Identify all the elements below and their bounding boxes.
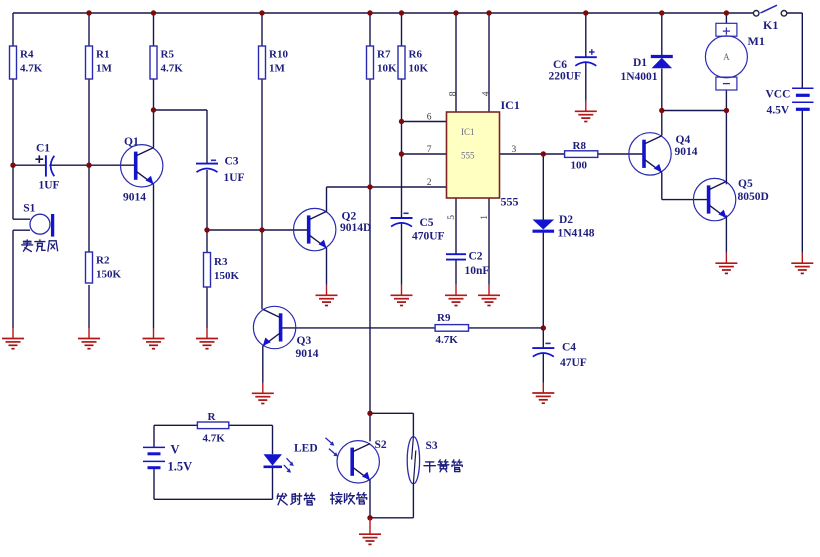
node top rail / R7 xyxy=(367,10,372,15)
pin 1 label xyxy=(480,215,490,220)
svg-text:A: A xyxy=(723,52,730,62)
wire Q2 collector riser xyxy=(326,187,328,212)
wire pin2 node down to S2 node xyxy=(369,187,371,413)
ground at R4/S1 column xyxy=(2,328,24,349)
wire emitter loop top right xyxy=(229,425,273,454)
wire node to Q4 collector xyxy=(661,111,663,136)
svg-text:10nF: 10nF xyxy=(465,265,490,277)
wire Q4 emitter drop xyxy=(661,172,663,199)
phototransistor S2 xyxy=(325,438,386,483)
svg-text:4.7K: 4.7K xyxy=(20,63,43,75)
svg-text:LED: LED xyxy=(294,442,318,454)
svg-text:R1: R1 xyxy=(96,49,109,61)
svg-text:D2: D2 xyxy=(559,214,573,226)
wire R4 column upper xyxy=(12,13,14,46)
node top rail / D1 xyxy=(659,10,664,15)
svg-text:1N4001: 1N4001 xyxy=(621,71,658,83)
wire D1 drop xyxy=(661,13,663,56)
diode D2 1N4148 xyxy=(533,214,595,240)
ground at Q5 emitter xyxy=(715,253,737,274)
svg-text:9014: 9014 xyxy=(296,348,319,360)
label fasheguan (emitter tube) for LED xyxy=(277,493,314,505)
node D1 / Q4 collector xyxy=(659,108,664,113)
wire Q2 base horizontal xyxy=(207,229,308,231)
svg-text:M1: M1 xyxy=(748,34,765,48)
transistor Q3 9014 xyxy=(253,306,318,360)
ground at C5 xyxy=(391,285,413,306)
wire 555 pin1 to ground xyxy=(488,198,490,285)
node top rail / M1 xyxy=(724,10,729,15)
label maikefeng (microphone) for S1 xyxy=(22,240,58,252)
switch K1 xyxy=(753,5,786,32)
resistor R1 1M xyxy=(86,46,113,79)
wire R10 down to Q2 base node xyxy=(261,79,263,230)
ground at C6 xyxy=(575,101,597,122)
svg-text:Q4: Q4 xyxy=(676,134,691,146)
wire R6 column upper xyxy=(401,13,403,46)
svg-text:R: R xyxy=(208,411,217,423)
motor M1 xyxy=(705,23,764,90)
svg-text:9014: 9014 xyxy=(123,192,146,204)
wire R7 column upper xyxy=(369,13,371,46)
resistor R10 1M xyxy=(259,46,289,79)
svg-text:C6: C6 xyxy=(553,59,567,71)
node top rail / R6 xyxy=(399,10,404,15)
label IC1 designator xyxy=(501,98,520,112)
wire S2 collector xyxy=(369,413,371,441)
wire 555 pin6 xyxy=(402,121,447,123)
svg-text:R2: R2 xyxy=(96,255,110,267)
svg-text:470UF: 470UF xyxy=(412,231,445,243)
node R6 / pin6 xyxy=(399,119,404,124)
wire C4 to ground xyxy=(542,354,544,383)
wire Q1 emitter to ground xyxy=(153,184,155,328)
svg-text:4: 4 xyxy=(481,91,491,96)
svg-text:3: 3 xyxy=(512,145,517,155)
wire node to C4 xyxy=(542,328,544,348)
op-amp U1 555 timer IC1 body xyxy=(447,112,500,198)
svg-text:R8: R8 xyxy=(573,140,587,152)
wire top rail right of K1 and VCC battery drop xyxy=(786,13,802,88)
svg-text:555: 555 xyxy=(461,151,475,161)
resistor R3 150K xyxy=(204,253,240,288)
node R10 / Q2 base xyxy=(259,227,264,232)
wire R5 to collector node xyxy=(153,79,155,148)
node top rail / pin8 xyxy=(453,10,458,15)
svg-text:555: 555 xyxy=(501,195,519,209)
wire R1 column upper xyxy=(88,13,90,46)
resistor R 4.7K emitter loop xyxy=(197,411,228,445)
wire R9 to C4 node xyxy=(469,327,544,329)
wire 555 pin5 to C2 xyxy=(455,198,457,254)
svg-text:Q5: Q5 xyxy=(738,178,753,190)
label ganhuangguan (reed switch) for S3 xyxy=(424,460,462,472)
label 555 value xyxy=(501,195,519,209)
wire Q5 emitter to ground xyxy=(725,215,727,252)
label jieshouguan (receiver) for S2 xyxy=(331,493,367,504)
capacitor C4 47UF xyxy=(532,342,587,369)
svg-text:1M: 1M xyxy=(96,63,113,75)
resistor R6 10K xyxy=(398,46,429,79)
svg-text:1UF: 1UF xyxy=(224,172,245,184)
wire C2 to ground xyxy=(455,260,457,285)
svg-text:10K: 10K xyxy=(409,63,429,75)
wire S3 branch bottom xyxy=(370,484,413,518)
svg-text:4.7K: 4.7K xyxy=(161,63,184,75)
node C3 / R3 xyxy=(204,227,209,232)
svg-text:IC1: IC1 xyxy=(501,98,520,112)
svg-text:K1: K1 xyxy=(763,18,778,32)
svg-text:6: 6 xyxy=(427,112,432,122)
svg-text:4.7K: 4.7K xyxy=(436,334,459,346)
wire VCC battery to ground xyxy=(801,109,803,252)
wire R7 to pin2 node xyxy=(369,79,371,187)
svg-text:R7: R7 xyxy=(377,49,391,61)
wire Q3 emitter to ground xyxy=(262,346,264,383)
wire 555 pin4 drop xyxy=(488,13,490,112)
node pin3 / D2 xyxy=(541,151,546,156)
ground at C2 / pin5 xyxy=(445,285,467,306)
pin 2 label xyxy=(427,178,432,188)
node top rail / R5 xyxy=(151,10,156,15)
wire R6 to pins 6/7 and C5 xyxy=(401,79,403,218)
wire 555 pin2 horizontal xyxy=(327,186,447,188)
resistor R9 4.7K xyxy=(435,312,468,346)
svg-text:150K: 150K xyxy=(214,270,240,282)
svg-text:S2: S2 xyxy=(375,439,387,451)
wire C3 top drop xyxy=(206,110,208,164)
wire C3 to R3 node xyxy=(206,170,208,253)
wire top supply rail xyxy=(13,12,754,14)
resistor R7 10K xyxy=(367,46,398,79)
svg-text:C3: C3 xyxy=(225,156,239,168)
svg-text:C2: C2 xyxy=(469,250,483,262)
pin 6 label xyxy=(427,112,432,122)
svg-text:8: 8 xyxy=(448,91,458,96)
transistor Q5 8050D xyxy=(693,178,768,221)
svg-text:R9: R9 xyxy=(437,312,451,324)
svg-text:1.5V: 1.5V xyxy=(168,460,193,474)
ground at Q3 emitter xyxy=(252,383,274,404)
svg-text:S3: S3 xyxy=(426,440,438,452)
svg-text:1: 1 xyxy=(480,215,490,220)
capacitor C1 1UF xyxy=(35,143,59,192)
svg-text:2: 2 xyxy=(427,178,432,188)
ground at R3 column xyxy=(196,328,218,349)
svg-text:C5: C5 xyxy=(420,217,434,229)
capacitor C3 1UF xyxy=(196,156,245,185)
wire node to Q5 collector xyxy=(725,111,727,185)
node R5 / Q1 collector / C3 xyxy=(151,107,156,112)
transistor Q1 9014 xyxy=(121,136,163,203)
svg-text:R6: R6 xyxy=(409,49,423,61)
wire node to Q3 collector xyxy=(261,230,263,309)
wire Q2 emitter to ground xyxy=(326,248,328,285)
wire S3 branch top xyxy=(370,413,413,436)
wire C1 node horizontal xyxy=(13,164,46,166)
wire D2 branch upper xyxy=(542,154,544,220)
wire R5 column upper xyxy=(153,13,155,46)
wire R3 to ground xyxy=(206,287,208,328)
reed switch S3 xyxy=(407,437,438,484)
node C1 left xyxy=(10,163,15,168)
wire S1 lower stub to ground xyxy=(12,230,14,328)
node D2 / R9 / C4 xyxy=(541,325,546,330)
svg-text:Q3: Q3 xyxy=(297,335,312,347)
svg-text:D1: D1 xyxy=(633,57,647,69)
ground at pin1 xyxy=(478,285,500,306)
pin 8 label xyxy=(448,91,458,96)
wire emitter loop bottom xyxy=(154,468,273,500)
wire node R5/C3 horizontal xyxy=(154,109,208,111)
ground at VCC battery xyxy=(791,253,813,274)
svg-text:C4: C4 xyxy=(562,342,576,354)
svg-text:47UF: 47UF xyxy=(560,357,587,369)
resistor R5 4.7K xyxy=(150,46,183,79)
transistor Q2 9014D xyxy=(294,208,372,250)
wire Q4 emitter to Q5 base xyxy=(662,199,709,201)
resistor R2 150K xyxy=(86,252,122,283)
svg-text:1N4148: 1N4148 xyxy=(558,228,595,240)
svg-text:100: 100 xyxy=(571,160,588,172)
svg-text:1UF: 1UF xyxy=(39,180,60,192)
svg-text:1M: 1M xyxy=(269,63,286,75)
svg-text:VCC: VCC xyxy=(766,89,791,101)
pin 5 label xyxy=(447,215,457,220)
svg-text:V: V xyxy=(171,443,180,457)
wire D1 to node xyxy=(661,69,663,111)
node top rail / R10 xyxy=(259,10,264,15)
capacitor C5 470UF xyxy=(391,213,445,242)
wire emitter loop left xyxy=(153,425,155,499)
ground at R2 column xyxy=(78,328,100,349)
wire 555 pin3 to R8 xyxy=(500,153,565,155)
svg-text:9014D: 9014D xyxy=(340,222,371,234)
node R7 / pin2 xyxy=(367,184,372,189)
svg-text:S1: S1 xyxy=(23,203,35,215)
capacitor C6 220UF xyxy=(549,49,597,82)
svg-text:Q1: Q1 xyxy=(124,136,139,148)
svg-text:4.7K: 4.7K xyxy=(203,433,226,445)
pin 4 label xyxy=(481,91,491,96)
microphone S1 xyxy=(13,203,53,237)
wire C1 to Q1 base xyxy=(49,164,136,166)
wire M1 top xyxy=(725,13,727,23)
ground at S2/S3 xyxy=(359,518,381,545)
wire 555 pin7 xyxy=(402,153,447,155)
battery VCC 4.5V xyxy=(766,88,814,116)
wire C6 to ground xyxy=(585,63,587,101)
LED emitter diode xyxy=(264,442,318,472)
wire R1 to C1 node to R2 xyxy=(88,79,90,252)
pin 3 label xyxy=(512,145,517,155)
ground at C4 xyxy=(532,383,554,404)
resistor R4 4.7K xyxy=(10,46,43,79)
ground at Q2 emitter xyxy=(316,285,338,306)
node M1 / Q5 collector xyxy=(724,108,729,113)
wire C5 to ground xyxy=(401,224,403,285)
wire C6 drop xyxy=(585,13,587,57)
node C1 right / R1 R2 xyxy=(86,163,91,168)
svg-text:5: 5 xyxy=(447,215,457,220)
wire Q3 base to R9 xyxy=(279,327,435,329)
svg-text:8050D: 8050D xyxy=(738,191,769,203)
resistor R8 100 xyxy=(565,140,598,172)
wire R8 to Q4 base xyxy=(598,153,644,155)
svg-text:R3: R3 xyxy=(214,256,228,268)
svg-text:9014: 9014 xyxy=(675,146,698,158)
capacitor C2 10nF xyxy=(446,250,489,277)
svg-text:150K: 150K xyxy=(96,269,122,281)
wire emitter loop top left xyxy=(154,424,197,426)
svg-text:R10: R10 xyxy=(269,49,288,61)
svg-text:4.5V: 4.5V xyxy=(767,105,790,117)
node S2 / S3 bottom xyxy=(367,515,372,520)
pin 7 label xyxy=(427,145,432,155)
wire R2 to ground xyxy=(88,285,90,328)
wire node D1/M1 horizontal xyxy=(662,110,727,112)
node pin7 xyxy=(399,151,404,156)
ground at Q1 emitter xyxy=(143,328,165,349)
wire D2 to R9/C4 node xyxy=(542,233,544,328)
node top rail / C6 xyxy=(583,10,588,15)
wire R4 to C1 node and microphone xyxy=(12,79,14,219)
transistor Q4 9014 xyxy=(629,133,698,175)
wire S2 emitter to ground node xyxy=(369,480,371,518)
svg-text:R5: R5 xyxy=(161,49,175,61)
svg-text:Q2: Q2 xyxy=(342,210,357,222)
diode D1 1N4001 xyxy=(621,57,673,84)
svg-text:IC1: IC1 xyxy=(461,127,475,137)
node S2 / S3 top xyxy=(367,411,372,416)
wire 555 pin8 drop xyxy=(455,13,457,112)
wire R10 column upper xyxy=(261,13,263,46)
battery V 1.5V xyxy=(143,443,192,474)
wire M1 bottom to node xyxy=(725,90,727,111)
svg-text:C1: C1 xyxy=(36,143,50,155)
svg-text:R4: R4 xyxy=(20,49,34,61)
svg-text:7: 7 xyxy=(427,145,432,155)
node top rail / pin4 xyxy=(486,10,491,15)
node top rail / R1 xyxy=(86,10,91,15)
svg-text:220UF: 220UF xyxy=(549,71,582,83)
svg-text:10K: 10K xyxy=(377,63,397,75)
